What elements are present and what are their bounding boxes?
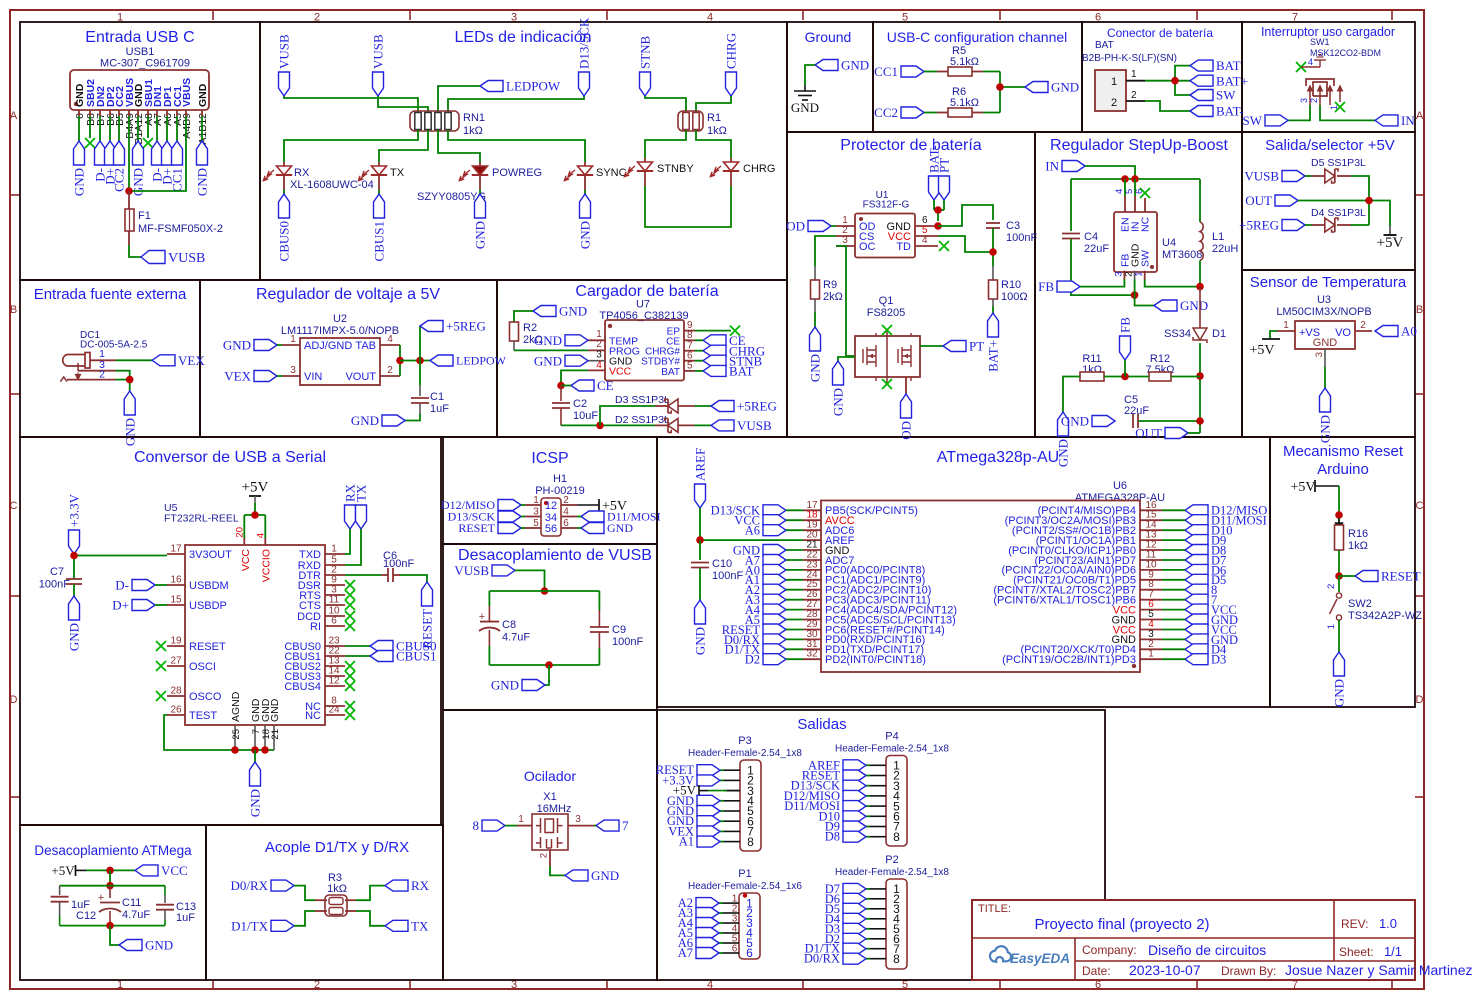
wire C1 to GND <box>405 414 420 421</box>
svg-text:6: 6 <box>746 946 753 960</box>
svg-text:2023-10-07: 2023-10-07 <box>1129 962 1201 978</box>
svg-text:VIN: VIN <box>304 371 322 383</box>
svg-text:TITLE:: TITLE: <box>978 903 1011 915</box>
svg-text:1: 1 <box>1148 649 1154 660</box>
net flag CHRG <box>726 72 737 96</box>
U6 pin 9 (PCINT21/OC0B/T1)PD5 <box>1140 579 1162 581</box>
svg-text:L1: L1 <box>1212 231 1224 243</box>
section boxes <box>20 22 260 280</box>
net flag A7 (P1 pin 6) <box>719 952 723 954</box>
wire GND flag to earth <box>805 65 815 85</box>
svg-text:22uF: 22uF <box>1084 243 1109 255</box>
U1 pin 3 OC <box>836 245 855 247</box>
net flag OUT <box>1165 428 1188 439</box>
U7 pin 4 VCC <box>588 369 605 371</box>
svg-text:Header-Female-2.54_1x8: Header-Female-2.54_1x8 <box>835 867 949 878</box>
DC1 pin 2 + switch prong <box>60 377 67 382</box>
wire FB flag to pin3 <box>1080 280 1124 287</box>
svg-text:Proyecto final (proyecto 2): Proyecto final (proyecto 2) <box>1034 916 1209 933</box>
svg-text:26: 26 <box>170 705 182 716</box>
diode D1 SS34 <box>1199 287 1201 328</box>
junction BAT- PT <box>934 206 942 214</box>
U4 pin 3 FB <box>1123 271 1125 280</box>
U5 pin 13 CBUS2 <box>325 665 345 667</box>
U6 pin 18 AVCC <box>803 519 821 521</box>
U2 pin 1 ADJ/GND <box>282 344 300 346</box>
wire Q1 to PT <box>920 345 943 347</box>
svg-text:+3.3V: +3.3V <box>67 493 82 527</box>
wire left leg top <box>488 591 490 606</box>
svg-text:FB: FB <box>1118 317 1133 333</box>
svg-text:CE: CE <box>597 378 614 393</box>
wire node to switch <box>1338 576 1340 592</box>
U5 pin 3 RTS <box>325 594 345 596</box>
U4 pin 5 IN <box>1134 196 1136 212</box>
H1 pins right 2 4 6 <box>561 504 577 506</box>
svg-text:BAT: BAT <box>661 367 680 378</box>
svg-text:DC-005-5A-2.5: DC-005-5A-2.5 <box>80 340 148 351</box>
svg-text:(PCINT19/OC2B/INT1)PD3: (PCINT19/OC2B/INT1)PD3 <box>1002 654 1136 666</box>
U1 pin 6 GND <box>915 225 938 227</box>
svg-text:C: C <box>1416 500 1424 512</box>
resistor R16 1k <box>1335 525 1344 550</box>
net flag CE (pin8) <box>703 335 726 346</box>
net flag GND (POWREG) <box>475 194 486 218</box>
net flag RESET (sw) <box>1355 571 1378 582</box>
no-connect U5 right <box>345 590 355 600</box>
wire RXD to TX <box>345 529 361 565</box>
LED POWREG SZYY0805YG <box>479 162 481 166</box>
net flag D1/TX (U6 pin 31) <box>763 644 786 655</box>
svg-text:+5REG: +5REG <box>446 319 486 334</box>
svg-text:15: 15 <box>170 595 182 606</box>
svg-text:VCC: VCC <box>240 549 252 572</box>
wire R3 upper to RX <box>345 899 356 901</box>
svg-text:GND: GND <box>808 354 823 382</box>
svg-text:D0/RX: D0/RX <box>804 952 840 966</box>
svg-text:VUSB: VUSB <box>454 563 489 578</box>
svg-text:EasyEDA: EasyEDA <box>1010 951 1070 966</box>
wire bottom bus <box>489 664 599 666</box>
svg-text:R10: R10 <box>1001 279 1021 291</box>
arrow marker <box>1336 518 1343 530</box>
svg-text:OSCO: OSCO <box>189 691 222 703</box>
net flag FB (pin3) <box>1057 281 1080 292</box>
svg-text:VUSB: VUSB <box>168 251 205 266</box>
U6 pin 11 (PCINT23/AIN1)PD7 <box>1140 559 1162 561</box>
svg-text:3: 3 <box>533 507 539 518</box>
net flag VCC (U6 pin 18) <box>763 515 786 526</box>
svg-text:2: 2 <box>563 495 569 506</box>
svg-text:GND: GND <box>791 100 819 115</box>
svg-text:POWREG: POWREG <box>492 167 542 179</box>
capacitor C2 10uF <box>560 386 562 402</box>
net flag RESET (C6) <box>422 582 433 606</box>
net flag VCC (decoup) <box>135 865 158 876</box>
svg-text:SW: SW <box>1243 113 1263 128</box>
net flag RESET (P3 pin 1) <box>720 769 724 771</box>
svg-text:VEX: VEX <box>178 353 205 368</box>
junction U2 out b <box>416 357 424 365</box>
net flag D3 (P2 pin 5) <box>866 928 870 930</box>
svg-text:2: 2 <box>1360 320 1366 331</box>
net flag D2 (P2 pin 6) <box>866 938 870 940</box>
svg-text:IN: IN <box>1401 113 1415 128</box>
svg-text:+5V: +5V <box>1249 343 1274 358</box>
junction bus EN <box>1121 175 1129 183</box>
svg-text:D5 SS1P3L: D5 SS1P3L <box>1311 157 1366 169</box>
svg-text:3: 3 <box>1314 352 1325 357</box>
U6 pin 13 (PCINT1/OC1A)PB1 <box>1140 539 1162 541</box>
wire pins 2,3 to GND <box>116 371 130 380</box>
svg-text:56: 56 <box>545 523 557 535</box>
svg-text:Josue Nazer y Samir Martinez: Josue Nazer y Samir Martinez <box>1285 962 1473 978</box>
svg-text:P2: P2 <box>885 854 898 866</box>
svg-text:U6: U6 <box>1113 480 1127 492</box>
svg-text:+5V: +5V <box>242 480 269 496</box>
wire C6 to RESET flag <box>400 575 427 582</box>
net flag CC1 <box>901 66 924 77</box>
svg-text:OD: OD <box>786 219 805 234</box>
net flag GND (P3 pin 6) <box>720 820 724 822</box>
wire U1 CS to R9 <box>815 236 836 266</box>
svg-text:VCCIO: VCCIO <box>261 549 273 582</box>
U5 pin 2 DTR <box>325 574 345 576</box>
svg-text:+5REG: +5REG <box>737 399 777 414</box>
U5 pin 1 TXD <box>325 553 345 555</box>
net flag D8 (U6 pin 12) <box>1185 545 1208 556</box>
svg-text:1uF: 1uF <box>176 912 195 924</box>
wire +5V to VCC flag <box>86 869 135 871</box>
net flag A3 (P1 pin 2) <box>719 912 723 914</box>
capacitor C12 1uF <box>59 886 61 895</box>
wire LEDPOW to RN1 <box>438 86 480 112</box>
svg-text:LM50CIM3X/NOPB: LM50CIM3X/NOPB <box>1276 306 1371 318</box>
wire BAT- net <box>1145 101 1190 111</box>
net flag CBUS0 <box>279 194 290 218</box>
U6 pin 22 ADC7 <box>803 559 821 561</box>
net flag D10 (P4 pin 6) <box>866 815 870 817</box>
net flag FB (divider) <box>1120 336 1131 360</box>
svg-text:Protector de batería: Protector de batería <box>840 137 982 154</box>
svg-text:MT3608: MT3608 <box>1162 249 1202 261</box>
net flag RESET (U6 pin 29) <box>763 624 786 635</box>
U7 pin 9 EP <box>684 330 695 332</box>
junction FB divider <box>1121 373 1129 381</box>
wire top bus <box>489 590 599 592</box>
junction DC gnd <box>126 376 134 384</box>
net flag D12/MISO (U6 pin 16) <box>1185 505 1208 516</box>
no-connect U5 right <box>345 621 355 631</box>
U2 pin 3 VIN <box>282 375 300 377</box>
junction vcc a <box>106 867 114 875</box>
wire bus to C4 <box>1070 179 1072 231</box>
U5 pin 22 CBUS1 <box>325 655 345 657</box>
ground earth symbol <box>794 85 816 100</box>
no-connect U5 right <box>345 600 355 610</box>
U1 pin 1 OD <box>836 225 855 227</box>
net flag VUSB (decoup) <box>492 565 515 576</box>
svg-text:VUSB: VUSB <box>1244 169 1279 184</box>
svg-text:PT: PT <box>937 158 952 173</box>
svg-text:3: 3 <box>575 814 581 825</box>
net flag STNB <box>640 72 651 96</box>
wire R10 to BAT+ <box>992 299 994 306</box>
net flag RESET (ICSP) <box>498 523 521 534</box>
no-connect SW1 pin1 <box>1335 102 1345 112</box>
svg-text:Conversor de USB a Serial: Conversor de USB a Serial <box>134 449 326 466</box>
U1 pin 4 TD <box>915 245 938 247</box>
svg-text:11: 11 <box>329 595 340 606</box>
svg-text:OSCI: OSCI <box>189 661 216 673</box>
junction gnd 7 <box>251 746 259 754</box>
wire U3 pin3 to GND <box>1324 367 1326 388</box>
DC1 pin 3 <box>78 370 116 372</box>
svg-text:1: 1 <box>1283 320 1289 331</box>
BAT pin 1 <box>1126 80 1145 82</box>
svg-text:CC2: CC2 <box>112 168 127 192</box>
U6 pin 31 PD1(TXD/PCINT17) <box>803 648 821 650</box>
net flag CHRG <box>703 345 726 356</box>
svg-text:+5V: +5V <box>1377 235 1404 251</box>
resistor R2 2k <box>510 322 519 341</box>
svg-text:BAT-: BAT- <box>1216 104 1244 119</box>
wire F1 to VUSB flag <box>129 245 141 257</box>
junction vusb bus <box>541 587 549 595</box>
svg-text:BAT: BAT <box>1095 40 1114 51</box>
svg-text:GND: GND <box>1332 679 1347 707</box>
svg-text:C11: C11 <box>122 897 141 909</box>
svg-text:17: 17 <box>170 544 182 555</box>
svg-text:2kΩ: 2kΩ <box>823 291 843 303</box>
svg-text:CBUS1: CBUS1 <box>396 649 436 664</box>
svg-text:OUT: OUT <box>1135 426 1162 441</box>
H1 pins left 1 3 5 <box>525 504 541 506</box>
svg-text:VCC: VCC <box>609 365 632 377</box>
svg-text:VBUS: VBUS <box>181 78 193 107</box>
net flag VUSB <box>1282 171 1305 182</box>
fuse F1 MF-FSMF050X-2 <box>128 191 130 209</box>
net flag D4 (U6 pin 2) <box>1185 644 1208 655</box>
svg-text:1: 1 <box>1134 272 1145 277</box>
svg-text:TX: TX <box>411 918 429 933</box>
net flag A2 (U6 pin 25) <box>763 584 786 595</box>
svg-text:1kΩ: 1kΩ <box>1348 540 1368 552</box>
U7 pin 5 BAT <box>684 370 695 372</box>
svg-text:Salida/selector +5V: Salida/selector +5V <box>1265 137 1395 154</box>
net flag D12/MISO (ICSP) <box>498 500 521 511</box>
net flag RX (acople) <box>385 880 408 891</box>
net flag +3.3V <box>69 530 80 554</box>
svg-text:BAT: BAT <box>729 363 754 378</box>
svg-text:D2 SS1P3L: D2 SS1P3L <box>615 414 670 426</box>
no-connect OSCI <box>156 661 166 671</box>
wire D0/RX to R3 <box>294 886 315 901</box>
net flag OD (bottom) <box>901 394 912 418</box>
svg-text:SYNC: SYNC <box>596 167 627 179</box>
resistor network R1 1k <box>678 111 703 131</box>
svg-text:BAT: BAT <box>1216 58 1241 73</box>
svg-text:8: 8 <box>473 818 480 833</box>
wire C7 to GND <box>73 584 75 596</box>
wire IN to bus <box>1085 166 1135 179</box>
svg-text:8: 8 <box>893 952 900 966</box>
svg-text:H1: H1 <box>553 473 567 485</box>
net flag GND (CC) <box>1025 82 1048 93</box>
net flag BAT+ <box>988 313 999 337</box>
net flag +3.3V (P3 pin 2) <box>720 779 724 781</box>
svg-text:GND: GND <box>1318 415 1333 443</box>
wire VUSB-b to RN1 <box>378 96 428 112</box>
wire U1 OC to Q1 <box>836 246 855 356</box>
svg-text:C7: C7 <box>50 566 64 578</box>
wire C4 to gnd bus <box>1071 239 1135 295</box>
svg-text:VUSB: VUSB <box>277 34 292 69</box>
svg-text:D8: D8 <box>825 830 840 844</box>
no-connect RESET <box>156 641 166 651</box>
svg-text:5.1kΩ: 5.1kΩ <box>950 97 979 109</box>
svg-text:FS312F-G: FS312F-G <box>863 200 910 211</box>
svg-text:12: 12 <box>328 676 340 687</box>
svg-text:4: 4 <box>256 533 267 538</box>
net flag GND (U6 pin 5) <box>1185 614 1208 625</box>
net flag GND (Q1) <box>833 361 844 385</box>
X1 pin 1 <box>517 825 532 827</box>
junction gnd bus <box>545 661 553 669</box>
junction VCC CE <box>557 382 565 390</box>
U6 pin 8 (PCINT7/XTAL2/TOSC2)PB7 <box>1140 589 1162 591</box>
wire RN1 to POWREG led <box>438 130 480 162</box>
svg-text:VUSB: VUSB <box>737 418 772 433</box>
U5 pin 20 VCC <box>243 538 245 545</box>
wire TX to CBUS1 <box>378 190 380 194</box>
no-connect EP <box>730 326 740 336</box>
svg-text:MF-FSMF050X-2: MF-FSMF050X-2 <box>138 223 223 235</box>
net flag +5REG (D3) <box>711 401 734 412</box>
svg-text:SW2: SW2 <box>1348 598 1372 610</box>
svg-text:GND: GND <box>122 418 137 446</box>
wire down to cap bus <box>109 870 111 885</box>
U5 pin 8 NC <box>325 705 345 707</box>
svg-text:19: 19 <box>170 636 182 647</box>
svg-text:4: 4 <box>1308 57 1313 67</box>
resistor R10 100 <box>989 280 998 299</box>
capacitor C4 22uF <box>1062 233 1080 235</box>
svg-text:AGND: AGND <box>230 691 242 722</box>
net flag PT (top) <box>939 176 950 200</box>
svg-text:100nF: 100nF <box>1006 232 1037 244</box>
U2 pin 4 TAB <box>380 344 400 346</box>
resistor R9 2k <box>811 280 820 299</box>
svg-text:U4: U4 <box>1162 237 1176 249</box>
capacitor C13 1uF <box>164 886 166 895</box>
wire STNB to R1 <box>645 96 686 112</box>
svg-text:Regulador StepUp-Boost: Regulador StepUp-Boost <box>1050 137 1228 154</box>
svg-text:TD: TD <box>896 241 911 253</box>
svg-text:XL-1608UWC-04: XL-1608UWC-04 <box>290 179 374 191</box>
svg-text:D1/TX: D1/TX <box>231 918 268 933</box>
net flag A1 (U6 pin 24) <box>763 574 786 585</box>
wires USB1 pins to flags <box>78 116 80 141</box>
U6 pin 21 GND <box>803 549 821 551</box>
net flag D4 (P2 pin 4) <box>866 918 870 920</box>
svg-text:Desacoplamiento ATMega: Desacoplamiento ATMega <box>34 843 192 858</box>
svg-text:GND: GND <box>491 678 519 693</box>
svg-text:VO: VO <box>1335 327 1351 339</box>
svg-text:P4: P4 <box>885 731 898 743</box>
svg-text:1: 1 <box>290 334 296 345</box>
U6 pin 7 (PCINT6/XTAL1/TOSC1)PB6 <box>1140 599 1162 601</box>
net flag D5 (U6 pin 9) <box>1185 574 1208 585</box>
U5 pin 24 NC <box>325 714 345 716</box>
wire RN1 to TX led <box>379 130 428 162</box>
net flag GND (P3 pin 5) <box>720 810 724 812</box>
svg-text:GND: GND <box>578 221 593 249</box>
switch SW2 TS342A2P-WZ <box>1336 593 1341 598</box>
net flag 7 (U6 pin 7) <box>1185 594 1208 605</box>
svg-text:1kΩ: 1kΩ <box>463 125 483 137</box>
U6 pin 14 (PCINT2/SS#/OC1B)PB2 <box>1140 529 1162 531</box>
svg-text:20: 20 <box>235 527 246 538</box>
svg-text:3: 3 <box>1299 98 1309 103</box>
svg-text:GND: GND <box>693 627 708 655</box>
svg-text:D2: D2 <box>745 653 760 667</box>
wire input bus <box>1071 178 1200 180</box>
svg-text:OD: OD <box>899 421 914 440</box>
switch SW1 body <box>1306 79 1334 96</box>
U5 pin 23 CBUS0 <box>325 645 345 647</box>
U7 pin 8 CE <box>684 339 695 341</box>
EasyEDA logo <box>990 946 1070 966</box>
U5 pin 27 OSCI <box>167 665 185 667</box>
net flag D5 (P2 pin 3) <box>866 908 870 910</box>
net flag AREF (P4 pin 1) <box>866 764 870 766</box>
net flag D12/MISO (P4 pin 4) <box>866 795 870 797</box>
svg-text:27: 27 <box>170 656 182 667</box>
svg-text:Regulador de voltaje a 5V: Regulador de voltaje a 5V <box>256 286 440 303</box>
svg-text:U2: U2 <box>333 313 347 325</box>
wire CBUS1 <box>345 655 370 657</box>
svg-text:D-: D- <box>115 578 129 593</box>
net flag D9 (P4 pin 7) <box>866 826 870 828</box>
svg-text:2: 2 <box>99 368 105 380</box>
svg-text:1: 1 <box>1131 69 1137 80</box>
svg-text:P3: P3 <box>738 735 751 747</box>
net flag OUT <box>1275 195 1298 206</box>
svg-text:+5V: +5V <box>51 863 75 878</box>
svg-text:Entrada fuente externa: Entrada fuente externa <box>34 286 187 303</box>
U5 pin 12 CBUS4 <box>325 685 345 687</box>
net flag D1/TX (P2 pin 7) <box>866 948 870 950</box>
svg-text:RESET: RESET <box>1381 569 1421 584</box>
svg-text:USB-C configuration channel: USB-C configuration channel <box>887 29 1068 45</box>
U7 pin 2 PROG <box>588 349 605 351</box>
svg-text:4: 4 <box>922 235 928 246</box>
wire right leg top <box>598 591 600 610</box>
junction R12 out <box>1196 372 1204 380</box>
svg-text:Q1: Q1 <box>879 295 894 307</box>
svg-text:Desacoplamiento de VUSB: Desacoplamiento de VUSB <box>458 547 652 564</box>
net flag VUSB (D2) <box>711 420 734 431</box>
junction gnd 25 <box>231 746 239 754</box>
svg-text:16: 16 <box>170 575 182 586</box>
wire SYNC to GND <box>584 190 586 194</box>
svg-text:D+: D+ <box>112 598 129 613</box>
U5 pin 19 RESET <box>167 645 185 647</box>
net flag GND (C1) <box>382 415 405 426</box>
svg-text:A1: A1 <box>679 835 694 849</box>
net flag BAT- <box>1190 106 1213 117</box>
